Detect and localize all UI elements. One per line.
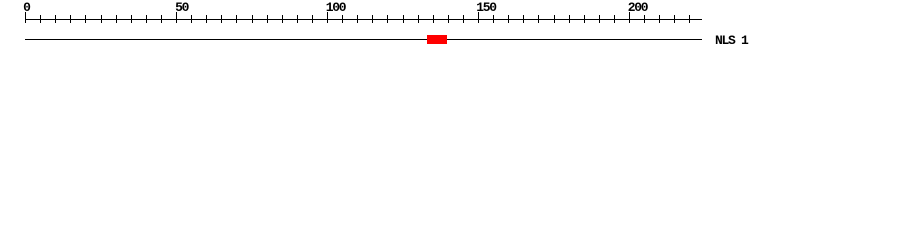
- NLS 1 red feature box: [427, 35, 447, 44]
- ruler major tick 150: [478, 12, 479, 23]
- ruler minor ticks (every 5 residues): [40, 15, 690, 23]
- ruler major tick 50: [176, 12, 177, 23]
- NLS 1 feature label: [715, 34, 748, 47]
- ruler major tick 0: [25, 12, 26, 23]
- ruler label 100: [326, 1, 346, 14]
- ruler label 0: [23, 1, 30, 14]
- ruler label 200: [628, 1, 648, 14]
- ruler label 50: [175, 1, 188, 14]
- ruler axis line: [25, 19, 702, 20]
- ruler major tick 200: [629, 12, 630, 23]
- ruler label 150: [476, 1, 496, 14]
- protein backbone line: [25, 39, 702, 40]
- ruler major tick 100: [327, 12, 328, 23]
